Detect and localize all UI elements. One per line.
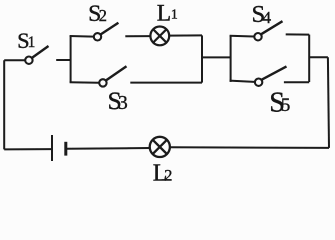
wire tap to right edge — [309, 56, 328, 58]
wire L2 to right edge — [171, 146, 330, 149]
wire S5 right stub — [284, 81, 309, 83]
wire top branch 1 left — [70, 35, 94, 38]
switch S3 — [99, 79, 106, 86]
wire S3 right stub — [130, 82, 202, 84]
svg-text:1: 1 — [28, 34, 36, 51]
svg-text:5: 5 — [281, 95, 290, 116]
svg-text:4: 4 — [263, 8, 272, 27]
svg-text:3: 3 — [118, 93, 128, 114]
switch S4 — [254, 33, 261, 40]
battery cell: long plate — [51, 135, 53, 161]
wire battery to L2 — [67, 147, 151, 150]
wire S4 right stub — [286, 33, 310, 35]
svg-text:L: L — [157, 1, 171, 27]
node left junction of parallel block 1 — [70, 36, 72, 83]
switch S2 — [94, 33, 101, 40]
wire bottom left to battery — [4, 148, 51, 150]
wire top-left horizontal to S1 — [4, 59, 25, 61]
wire S2 right stub — [125, 35, 149, 37]
wire middle tap between blocks — [202, 56, 231, 58]
switch S5 — [255, 79, 262, 86]
wire S1 right stub — [56, 59, 70, 61]
battery cell: short plate — [64, 142, 67, 156]
wire right vertical — [328, 57, 329, 148]
svg-text:2: 2 — [164, 165, 172, 184]
node left junction of parallel block 2 — [230, 36, 232, 82]
node right junction of parallel block 1 — [201, 35, 203, 82]
wire bottom branch 1 left — [70, 81, 99, 84]
lamp L1 — [150, 27, 169, 46]
node right junction of parallel block 2 — [308, 35, 310, 82]
svg-text:1: 1 — [171, 7, 178, 22]
svg-text:2: 2 — [99, 6, 107, 25]
lamp L2 — [150, 137, 170, 157]
wire bottom branch 2 left — [230, 81, 255, 82]
wire left vertical — [3, 60, 5, 149]
wire top branch 2 left — [230, 35, 254, 38]
wire L1 to right junction — [169, 34, 202, 36]
switch S1 — [25, 57, 32, 64]
